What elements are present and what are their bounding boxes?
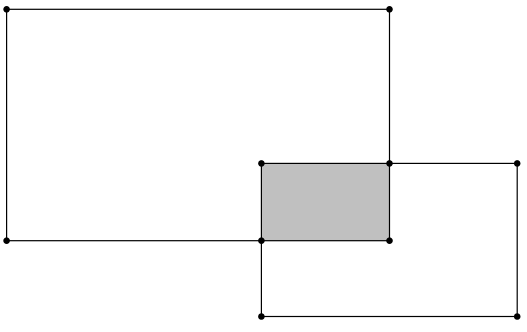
large rectangle outline xyxy=(7,9,390,240)
shaded overlap region xyxy=(261,163,389,240)
small rectangle outline xyxy=(261,163,517,316)
vertex dot: small rect top-left xyxy=(258,160,265,167)
vertex dot: small rect top-right xyxy=(514,160,521,167)
intersection dot: left edge of small rect with bottom edge of large rect xyxy=(258,237,265,244)
vertex dot: small rect bottom-right xyxy=(514,313,521,320)
vertex dot: large rect bottom-right xyxy=(386,237,393,244)
vertex dot: large rect bottom-left xyxy=(3,237,10,244)
vertex dot: large rect top-left xyxy=(3,6,10,13)
vertex dot: large rect top-right xyxy=(386,6,393,13)
vertex dot: small rect bottom-left xyxy=(258,313,265,320)
intersection dot: right edge of large rect with top edge of small rect xyxy=(386,160,393,167)
